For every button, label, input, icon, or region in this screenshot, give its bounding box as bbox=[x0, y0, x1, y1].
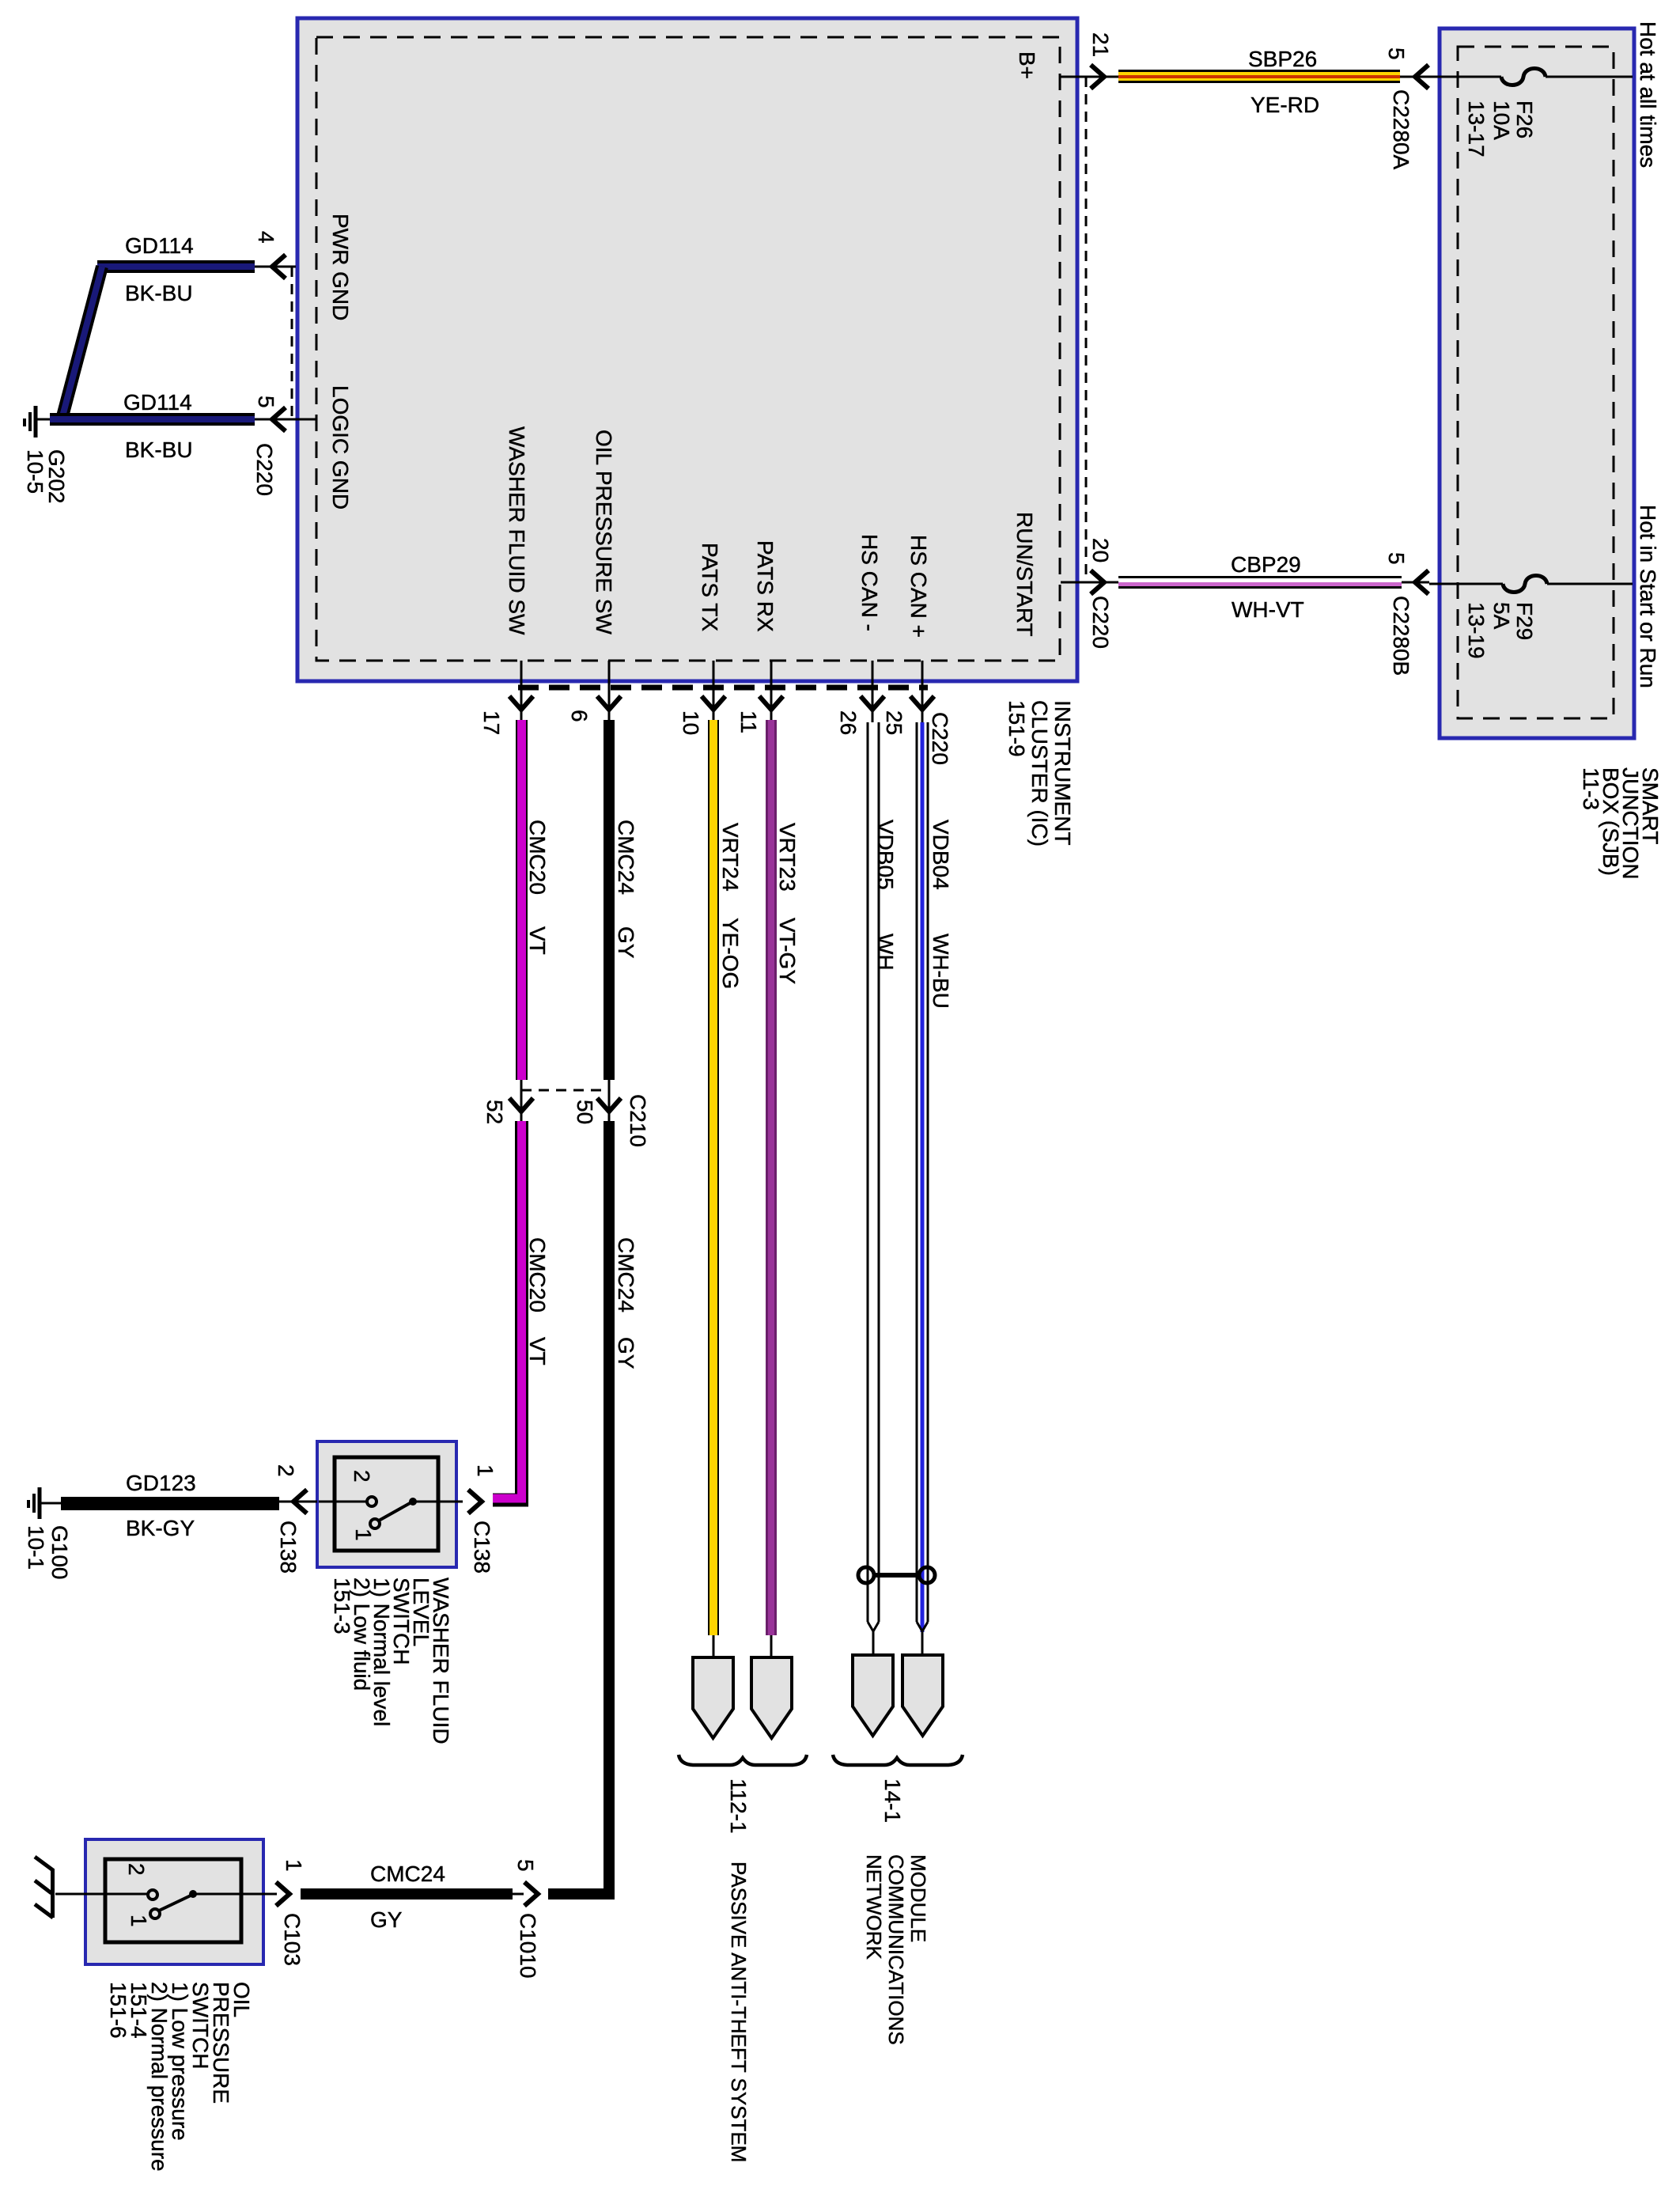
wire VRT24 YE-OG bbox=[708, 720, 719, 1657]
ground label G202 10-5 bbox=[23, 449, 69, 504]
svg-text:YE-RD: YE-RD bbox=[1251, 93, 1319, 117]
brace PATS group bbox=[679, 1755, 807, 1765]
svg-text:CMC24: CMC24 bbox=[614, 1237, 638, 1312]
svg-text:151-6: 151-6 bbox=[106, 1982, 131, 2039]
connector arrow C2280A pin 5 bbox=[1415, 65, 1428, 89]
wire CMC20 VT lower segment with elbow bbox=[493, 1121, 522, 1500]
svg-text:YE-OG: YE-OG bbox=[718, 918, 743, 989]
wire CMC24 GY horizontal segment bbox=[301, 1888, 513, 1900]
svg-text:PWR GND: PWR GND bbox=[328, 214, 353, 320]
svg-text:GD114: GD114 bbox=[123, 390, 192, 415]
svg-text:10A: 10A bbox=[1489, 100, 1514, 140]
svg-text:F26: F26 bbox=[1512, 100, 1537, 138]
svg-text:GY: GY bbox=[614, 1337, 638, 1369]
svg-text:F29: F29 bbox=[1512, 602, 1537, 640]
wire CMC24 GY upper segment bbox=[604, 720, 615, 1080]
terminator VDB04 bbox=[902, 1655, 943, 1736]
wire VRT23 VT-GY bbox=[766, 720, 777, 1657]
svg-text:17: 17 bbox=[479, 710, 504, 735]
oil pressure switch box bbox=[85, 1839, 263, 1964]
svg-text:6: 6 bbox=[567, 710, 592, 722]
svg-text:VT: VT bbox=[525, 1337, 550, 1365]
svg-text:20: 20 bbox=[1088, 538, 1113, 562]
connector arrow C210 pin 50 bbox=[597, 1080, 621, 1121]
svg-text:2: 2 bbox=[124, 1863, 149, 1876]
component name INSTRUMENT CLUSTER (IC) 151-9 bbox=[1005, 700, 1075, 847]
svg-text:5A: 5A bbox=[1489, 602, 1514, 630]
svg-text:MODULE: MODULE bbox=[906, 1854, 930, 1942]
svg-text:HS CAN +: HS CAN + bbox=[906, 535, 931, 638]
connector arrow C2280B pin 5 bbox=[1415, 570, 1428, 594]
svg-text:C2280B: C2280B bbox=[1389, 596, 1413, 676]
svg-text:C138: C138 bbox=[276, 1521, 301, 1574]
svg-text:112-1: 112-1 bbox=[726, 1778, 751, 1834]
svg-text:C220: C220 bbox=[1088, 596, 1113, 649]
svg-text:OIL PRESSURE SW: OIL PRESSURE SW bbox=[592, 430, 616, 634]
pin stubs and arrows at IC bottom bbox=[521, 661, 922, 722]
twisted pair symbol bbox=[858, 1567, 935, 1583]
wire break symbol bbox=[35, 1857, 53, 1918]
svg-text:C210: C210 bbox=[626, 1094, 650, 1147]
svg-text:C2280A: C2280A bbox=[1389, 89, 1413, 170]
component name WASHER FLUID LEVEL SWITCH bbox=[330, 1578, 453, 1744]
svg-text:10-1: 10-1 bbox=[24, 1525, 48, 1570]
svg-text:BK-BU: BK-BU bbox=[125, 437, 193, 462]
connector arrow pin 6 bbox=[597, 696, 621, 710]
washer switch contacts bbox=[319, 1497, 463, 1528]
svg-text:GY: GY bbox=[614, 926, 638, 959]
svg-text:151-3: 151-3 bbox=[330, 1578, 354, 1634]
svg-text:VT-GY: VT-GY bbox=[775, 918, 800, 984]
svg-text:CMC20: CMC20 bbox=[525, 820, 550, 895]
svg-text:2: 2 bbox=[350, 1470, 374, 1483]
svg-text:VRT23: VRT23 bbox=[775, 823, 800, 892]
svg-text:CMC20: CMC20 bbox=[525, 1237, 550, 1312]
connector arrow C1010 pin 5 bbox=[513, 1882, 538, 1906]
connector arrow pin 26 bbox=[861, 696, 884, 710]
svg-text:C1010: C1010 bbox=[516, 1913, 540, 1979]
ground wire GD123 BK-GY bbox=[61, 1497, 317, 1510]
svg-text:14-1: 14-1 bbox=[880, 1778, 905, 1823]
ground wire GD114 pin 4 bbox=[62, 260, 296, 419]
svg-text:11: 11 bbox=[736, 710, 761, 733]
ground G100 bbox=[28, 1487, 61, 1519]
svg-text:50: 50 bbox=[573, 1100, 597, 1124]
terminator VDB05 bbox=[853, 1655, 893, 1736]
connector arrow C138 pin 2 bbox=[293, 1490, 307, 1513]
connector C220 dashed line right side bbox=[1085, 77, 1088, 582]
svg-text:C220: C220 bbox=[252, 443, 277, 496]
svg-text:VT: VT bbox=[525, 926, 550, 955]
svg-text:1: 1 bbox=[282, 1859, 306, 1872]
svg-text:CMC24: CMC24 bbox=[614, 820, 638, 895]
instrument cluster IC box bbox=[297, 18, 1077, 681]
connector arrow pin 4 bbox=[272, 255, 286, 278]
connector arrow pin 20 bbox=[1091, 570, 1104, 594]
svg-text:GD114: GD114 bbox=[125, 233, 194, 258]
svg-text:BK-GY: BK-GY bbox=[126, 1516, 195, 1540]
svg-text:GY: GY bbox=[370, 1907, 403, 1932]
connector arrow C103 pin 1 bbox=[276, 1882, 289, 1906]
svg-text:SBP26: SBP26 bbox=[1248, 47, 1317, 71]
svg-text:LOGIC GND: LOGIC GND bbox=[328, 385, 353, 509]
svg-text:4: 4 bbox=[254, 231, 278, 244]
connector arrow pin 17 bbox=[509, 696, 533, 710]
wire VDB04 WH-BU (twisted pair) bbox=[917, 722, 928, 1655]
svg-text:VDB04: VDB04 bbox=[929, 820, 953, 890]
svg-text:PATS RX: PATS RX bbox=[753, 540, 778, 632]
svg-text:11-3: 11-3 bbox=[1579, 767, 1603, 810]
label MODULE COMMUNICATIONS NETWORK bbox=[862, 1854, 930, 2045]
wire VDB05 WH (twisted pair) bbox=[868, 722, 879, 1655]
svg-text:CMC24: CMC24 bbox=[370, 1862, 445, 1886]
svg-text:WH: WH bbox=[873, 934, 898, 971]
wire CMC24 GY lower segment with elbow to oil pressure switch bbox=[548, 1121, 609, 1894]
svg-text:NETWORK: NETWORK bbox=[862, 1854, 886, 1960]
svg-text:5: 5 bbox=[1384, 552, 1409, 565]
svg-text:PASSIVE ANTI-THEFT SYSTEM: PASSIVE ANTI-THEFT SYSTEM bbox=[727, 1862, 751, 2162]
svg-text:GD123: GD123 bbox=[126, 1471, 196, 1495]
svg-text:VDB05: VDB05 bbox=[873, 820, 898, 890]
svg-text:Hot at all times: Hot at all times bbox=[1636, 21, 1660, 168]
terminator VRT23 bbox=[751, 1657, 792, 1738]
svg-text:PATS TX: PATS TX bbox=[698, 543, 722, 631]
svg-text:WH-BU: WH-BU bbox=[929, 934, 953, 1009]
component name OIL PRESSURE SWITCH bbox=[106, 1982, 254, 2172]
svg-text:G100: G100 bbox=[47, 1525, 72, 1580]
svg-text:2: 2 bbox=[274, 1464, 298, 1477]
connector arrow C138 pin 1 bbox=[468, 1490, 482, 1513]
svg-text:1: 1 bbox=[127, 1915, 151, 1927]
fuse F29 label bbox=[1464, 602, 1537, 659]
svg-text:1: 1 bbox=[351, 1528, 376, 1541]
svg-text:5: 5 bbox=[1384, 47, 1409, 60]
svg-text:10: 10 bbox=[679, 710, 703, 735]
fuse F26 label bbox=[1464, 100, 1537, 157]
svg-text:26: 26 bbox=[836, 710, 861, 735]
svg-text:52: 52 bbox=[482, 1100, 507, 1124]
svg-text:10-5: 10-5 bbox=[23, 449, 47, 494]
svg-text:WH-VT: WH-VT bbox=[1232, 597, 1304, 622]
ground label G100 10-1 bbox=[24, 1525, 72, 1580]
svg-text:WASHER FLUID SW: WASHER FLUID SW bbox=[505, 426, 529, 635]
connector arrow pin 5 bbox=[272, 407, 286, 431]
smart junction box SJB bbox=[1440, 28, 1634, 738]
connector arrow pin 11 bbox=[759, 696, 783, 710]
svg-text:C103: C103 bbox=[280, 1913, 305, 1966]
svg-text:5: 5 bbox=[513, 1859, 538, 1872]
svg-text:13-17: 13-17 bbox=[1464, 100, 1489, 157]
wire SBP26 YE-RD bbox=[1061, 70, 1429, 83]
fuse F29 5A feed line bbox=[1429, 576, 1633, 593]
component name SMART JUNCTION BOX (SJB) 11-3 bbox=[1579, 767, 1663, 880]
wire CBP29 WH-VT bbox=[1061, 576, 1429, 589]
connector C220 thick dashed line (bottom of IC) bbox=[518, 685, 928, 691]
wire CMC20 VT upper segment bbox=[516, 720, 528, 1080]
svg-text:CLUSTER (IC): CLUSTER (IC) bbox=[1027, 700, 1052, 847]
svg-text:C220: C220 bbox=[928, 712, 952, 765]
connector arrow pin 10 bbox=[702, 696, 725, 710]
svg-text:COMMUNICATIONS: COMMUNICATIONS bbox=[884, 1854, 908, 2045]
oil switch contacts bbox=[55, 1890, 277, 1918]
svg-text:RUN/START: RUN/START bbox=[1012, 512, 1037, 637]
washer fluid level switch box bbox=[317, 1441, 456, 1567]
svg-text:151-9: 151-9 bbox=[1005, 700, 1029, 757]
terminator VRT24 bbox=[693, 1657, 733, 1738]
svg-text:5: 5 bbox=[254, 396, 278, 408]
svg-text:1: 1 bbox=[473, 1464, 498, 1477]
svg-text:HS CAN -: HS CAN - bbox=[857, 534, 882, 631]
svg-text:INSTRUMENT: INSTRUMENT bbox=[1050, 700, 1075, 846]
connector C220 dashed line left side bbox=[291, 267, 293, 419]
svg-text:CBP29: CBP29 bbox=[1231, 552, 1301, 577]
svg-text:21: 21 bbox=[1088, 32, 1113, 57]
svg-text:13-19: 13-19 bbox=[1464, 602, 1489, 659]
svg-text:VRT24: VRT24 bbox=[718, 823, 743, 892]
ground wire GD114 pin 5 bbox=[50, 413, 316, 426]
svg-text:B+: B+ bbox=[1015, 51, 1039, 79]
connector arrow C210 pin 52 bbox=[509, 1080, 533, 1121]
fuse F26 10A feed line bbox=[1429, 69, 1633, 85]
svg-text:BK-BU: BK-BU bbox=[125, 281, 193, 305]
connector C210 dashed line bbox=[521, 1089, 609, 1092]
connector arrow pin 25 bbox=[910, 696, 934, 710]
ground G202 bbox=[25, 406, 50, 437]
svg-text:Hot in Start or Run: Hot in Start or Run bbox=[1636, 505, 1660, 688]
brace MODULE group bbox=[833, 1755, 963, 1765]
connector arrow pin 21 bbox=[1091, 65, 1104, 89]
svg-text:C138: C138 bbox=[470, 1521, 494, 1574]
svg-text:25: 25 bbox=[882, 710, 906, 735]
